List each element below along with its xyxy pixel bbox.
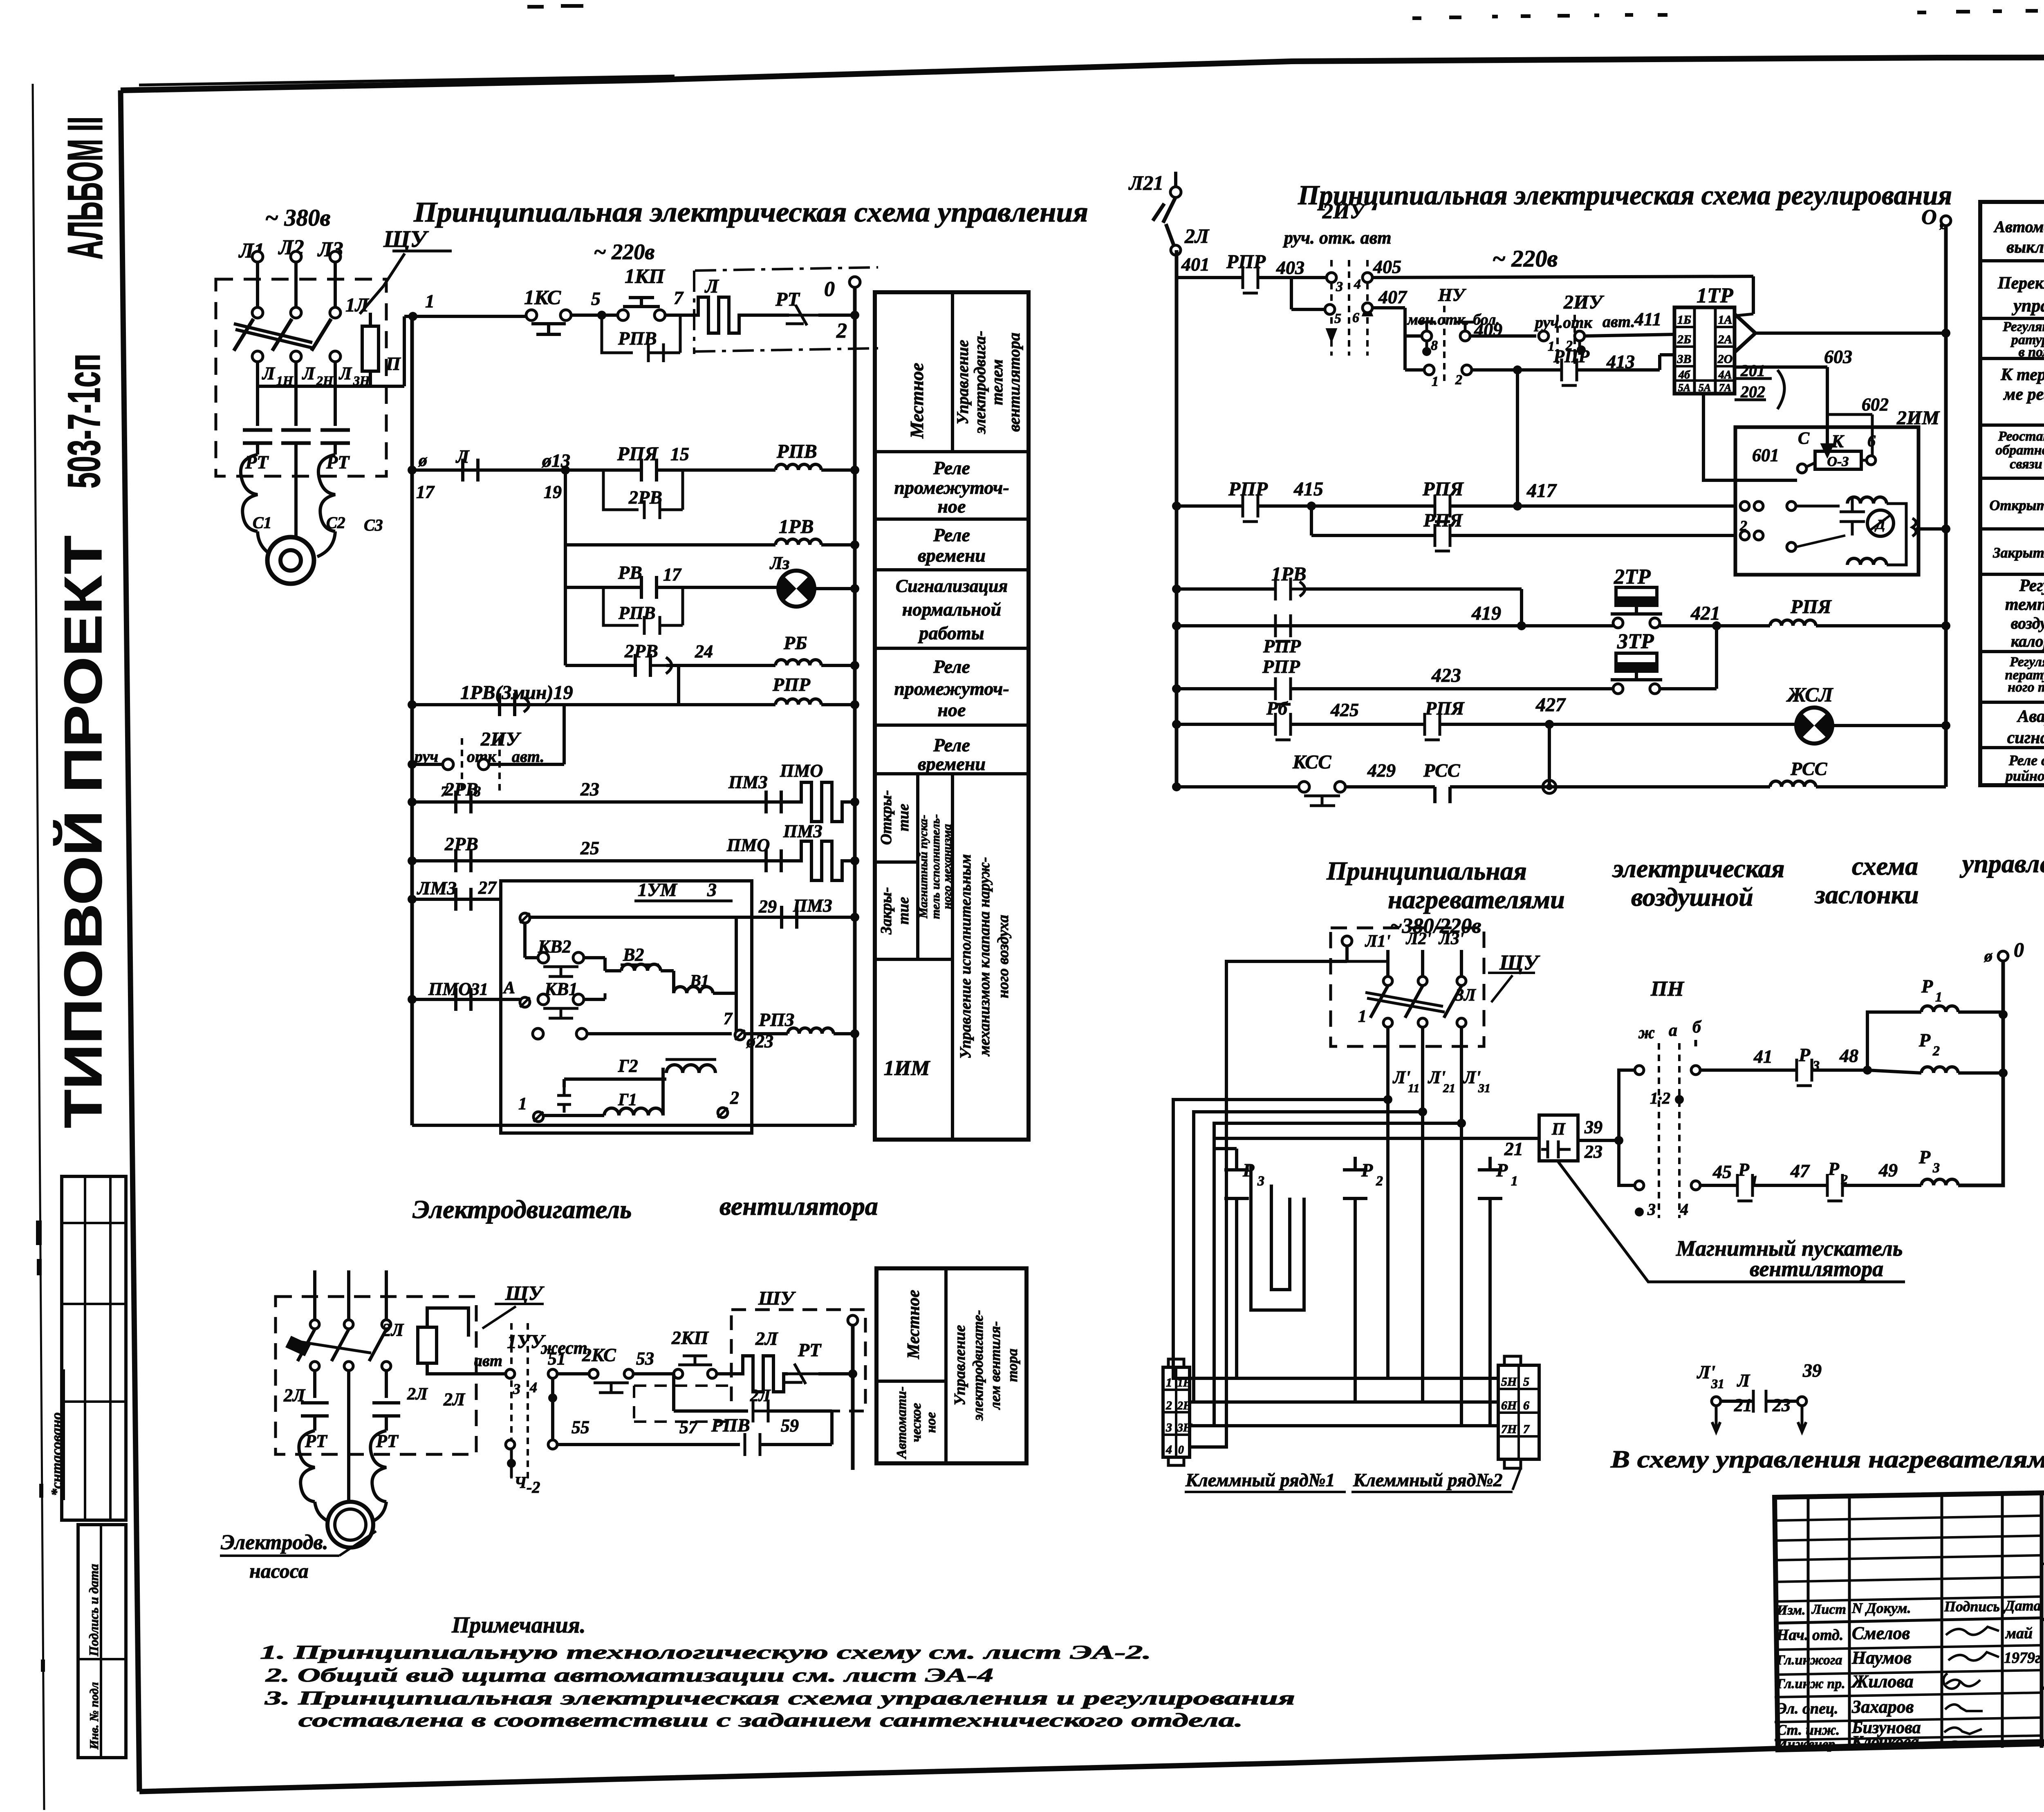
svg-text:Управление исполнительным: Управление исполнительным — [957, 854, 974, 1059]
svg-text:электрическая: электрическая — [1612, 854, 1785, 883]
rung РПР 423 — [1172, 684, 1181, 693]
svg-text:Г2: Г2 — [618, 1056, 638, 1076]
svg-text:57: 57 — [679, 1417, 698, 1437]
svg-text:ЖСЛ: ЖСЛ — [1786, 683, 1833, 706]
svg-text:К: К — [1831, 431, 1845, 451]
svg-text:Г1: Г1 — [618, 1091, 637, 1109]
svg-text:С3: С3 — [364, 516, 383, 534]
svg-text:2ИУ: 2ИУ — [1322, 200, 1366, 223]
svg-text:3: 3 — [707, 879, 717, 900]
svg-text:49: 49 — [1878, 1160, 1898, 1180]
svg-text:ПМО: ПМО — [780, 761, 823, 781]
svg-text:управления: управления — [2011, 296, 2044, 316]
margin stamp grid upper — [62, 1176, 126, 1520]
margin stamp grid lower — [78, 1525, 126, 1758]
svg-text:тие: тие — [895, 897, 912, 925]
svg-text:3: 3 — [513, 1381, 520, 1397]
svg-text:заслонки: заслонки — [1814, 880, 1919, 909]
table A frame — [875, 292, 1029, 1140]
svg-text:7: 7 — [724, 1010, 733, 1028]
title block verticals left part — [1807, 1497, 1810, 1749]
svg-text:Аварийная: Аварийная — [2016, 707, 2044, 726]
svg-text:423: 423 — [1431, 665, 1461, 686]
svg-text:7А: 7А — [1719, 382, 1731, 394]
svg-text:промежуточ-: промежуточ- — [894, 678, 1009, 699]
breaker blades — [1370, 986, 1388, 1018]
svg-text:1. Принципиальную технологич: 1. Принципиальную технологическую схему … — [260, 1642, 1151, 1663]
svg-text:Ст. инж.: Ст. инж. — [1777, 1722, 1840, 1738]
label Ч-2 — [507, 1459, 516, 1468]
svg-text:~ 380в: ~ 380в — [265, 204, 330, 231]
svg-text:управления: управления — [1959, 849, 2044, 878]
svg-text:23: 23 — [1584, 1142, 1602, 1162]
svg-text:23: 23 — [580, 779, 599, 800]
svg-text:39: 39 — [1584, 1117, 1602, 1137]
svg-text:электродвига-: электродвига- — [970, 331, 989, 435]
rung 2РВ 25 ПМО ПМЗ — [408, 856, 417, 865]
svg-text:ного теплоноси-: ного теплоноси- — [2008, 680, 2044, 695]
svg-text:2О: 2О — [1717, 352, 1733, 366]
svg-text:О: О — [1921, 206, 1937, 229]
svg-text:Эл. опец.: Эл. опец. — [1777, 1700, 1838, 1717]
svg-text:603: 603 — [1824, 346, 1852, 367]
phase terminal Л2 — [291, 251, 301, 262]
svg-text:Л21: Л21 — [1128, 171, 1163, 194]
svg-text:1РВ(3мин)19: 1РВ(3мин)19 — [460, 682, 573, 703]
svg-text:связи: связи — [2010, 457, 2042, 472]
svg-text:Подлись и дата: Подлись и дата — [86, 1564, 101, 1657]
svg-text:работы: работы — [917, 623, 984, 643]
svg-text:РПЯ: РПЯ — [1422, 478, 1464, 500]
svg-text:ПН: ПН — [1650, 977, 1684, 1001]
svg-text:Реле: Реле — [933, 457, 970, 478]
node 0 — [849, 277, 860, 287]
switch 2ИУ(5-6) 407 — [1177, 277, 1291, 278]
svg-text:РПВ: РПВ — [618, 603, 655, 623]
svg-text:~380/220в: ~380/220в — [1390, 914, 1481, 938]
svg-text:1ТР: 1ТР — [1697, 284, 1734, 307]
leader Магнитный пускатель — [1558, 1161, 1905, 1282]
right side pigtail of 2ИМ — [1912, 518, 1916, 536]
svg-text:Подпись: Подпись — [1944, 1598, 2000, 1615]
svg-text:Р: Р — [1798, 1044, 1811, 1065]
svg-text:55: 55 — [572, 1417, 589, 1437]
svg-text:51: 51 — [548, 1348, 566, 1369]
svg-text:ЩУ: ЩУ — [505, 1281, 545, 1304]
svg-text:РПЯ: РПЯ — [1425, 698, 1465, 719]
wire Л31 loop — [1190, 1123, 1461, 1426]
svg-text:-2: -2 — [527, 1478, 540, 1496]
svg-text:тие: тие — [895, 804, 912, 831]
line under — [2042, 1611, 2044, 1619]
svg-text:РСС: РСС — [1423, 760, 1461, 781]
svg-text:407: 407 — [1378, 287, 1407, 307]
scan marks left edge — [36, 1221, 42, 1245]
svg-text:39: 39 — [1802, 1360, 1822, 1381]
rung 2РВ 23 ПМЗ ПМО — [408, 797, 417, 806]
svg-text:31: 31 — [471, 980, 488, 999]
svg-text:Магнитный пуска-: Магнитный пуска- — [917, 815, 930, 918]
header row Изм Лист Ндокум Подпись Дата — [1775, 1618, 2042, 1623]
svg-text:2Л: 2Л — [407, 1385, 428, 1404]
svg-text:ШУ: ШУ — [758, 1288, 796, 1309]
svg-text:4А: 4А — [1718, 369, 1732, 381]
svg-text:ПМО: ПМО — [726, 835, 770, 855]
node 0 C — [1998, 951, 2008, 961]
svg-text:19: 19 — [544, 482, 562, 502]
svg-text:7Н: 7Н — [1501, 1422, 1517, 1436]
svg-text:29: 29 — [758, 896, 777, 916]
wires down from switch — [1386, 1087, 1390, 1378]
svg-text:24: 24 — [695, 641, 713, 661]
svg-text:417: 417 — [1526, 480, 1557, 502]
svg-text:электродвигате-: электродвигате- — [970, 1310, 986, 1421]
svg-text:Местное: Местное — [904, 1290, 923, 1359]
svg-text:11: 11 — [1408, 1082, 1419, 1095]
svg-text:405: 405 — [1373, 256, 1401, 277]
svg-text:РПР: РПР — [1228, 478, 1268, 500]
contactor П box — [1539, 1115, 1578, 1161]
svg-text:ПМО: ПМО — [428, 979, 471, 999]
frame top border — [121, 57, 2044, 90]
svg-text:Реле: Реле — [933, 524, 970, 545]
svg-text:1: 1 — [518, 1095, 527, 1113]
svg-text:Гл.инж пр.: Гл.инж пр. — [1776, 1676, 1845, 1691]
svg-text:602: 602 — [1862, 394, 1889, 414]
svg-text:6: 6 — [1352, 310, 1359, 325]
svg-text:1ИМ: 1ИМ — [884, 1057, 930, 1080]
svg-text:401: 401 — [1181, 254, 1210, 275]
svg-text:2РВ: 2РВ — [444, 833, 478, 854]
rung2 node 17 — [408, 466, 417, 475]
fuse П — [362, 326, 379, 371]
table A top split — [951, 292, 954, 452]
svg-text:Лз: Лз — [769, 553, 789, 573]
wire O phase left — [1190, 961, 1347, 1447]
svg-text:Л1': Л1' — [1365, 932, 1390, 951]
svg-text:3Н: 3Н — [1177, 1422, 1192, 1434]
svg-text:Рб: Рб — [1266, 698, 1288, 719]
svg-text:вентилятора: вентилятора — [719, 1192, 878, 1221]
svg-text:Закрытие: Закрытие — [1992, 544, 2044, 561]
svg-text:6: 6 — [1523, 1399, 1529, 1412]
leader to motor — [339, 1531, 376, 1556]
row 55-57-59 — [506, 1440, 515, 1449]
svg-text:НУ: НУ — [1438, 285, 1466, 305]
wire down to 1ТР — [1752, 276, 1755, 314]
svg-text:ТИПОВОЙ ПРОЕКТ: ТИПОВОЙ ПРОЕКТ — [53, 535, 113, 1128]
svg-text:руч. отк. авт: руч. отк. авт — [1282, 228, 1391, 248]
svg-text:Реостат: Реостат — [1998, 429, 2044, 444]
contactor 1Л blades — [234, 319, 253, 351]
svg-text:Л: Л — [1737, 1371, 1750, 1391]
svg-text:5: 5 — [591, 288, 601, 309]
svg-text:Инв. № подл: Инв. № подл — [87, 1682, 101, 1750]
svg-text:Примечания.: Примечания. — [451, 1613, 586, 1638]
svg-text:1·2: 1·2 — [1650, 1089, 1670, 1107]
wires below contactor — [256, 362, 259, 386]
svg-text:Ч: Ч — [514, 1473, 527, 1492]
svg-text:Р: Р — [1921, 976, 1933, 997]
svg-text:Смелов: Смелов — [1852, 1623, 1910, 1643]
coils inside 2ИМ — [1847, 497, 1887, 504]
isolating contacts — [256, 386, 259, 426]
node 1 — [408, 312, 417, 321]
svg-text:ПМЗ: ПМЗ — [783, 821, 823, 841]
internal contacts 2ИМ — [1740, 502, 1749, 511]
svg-text:1КС: 1КС — [524, 286, 561, 309]
svg-text:температуры: температуры — [2005, 595, 2044, 614]
svg-text:Жилова: Жилова — [1851, 1671, 1914, 1691]
left bus A — [410, 316, 414, 1125]
svg-text:Л: Л — [704, 275, 719, 297]
svg-text:7: 7 — [674, 287, 684, 308]
svg-text:Реле: Реле — [933, 735, 970, 755]
svg-text:С: С — [1798, 429, 1810, 448]
svg-text:45: 45 — [1712, 1161, 1732, 1182]
svg-text:21: 21 — [1443, 1082, 1455, 1095]
svg-text:О-З: О-З — [1827, 454, 1849, 469]
bottom return wire — [412, 1124, 855, 1127]
svg-text:1: 1 — [1166, 1376, 1172, 1389]
svg-text:1: 1 — [1432, 374, 1439, 389]
svg-text:схема: схема — [1852, 851, 1918, 880]
svg-text:27: 27 — [478, 878, 497, 898]
svg-text:2Л: 2Л — [755, 1328, 778, 1349]
svg-text:ного механизма: ного механизма — [940, 824, 954, 909]
motor насоса — [315, 1455, 386, 1521]
svg-text:21: 21 — [1734, 1395, 1752, 1415]
svg-text:Клочкова: Клочкова — [1851, 1732, 1919, 1751]
wire 601 from 1ТР bottom — [1703, 394, 1797, 480]
svg-text:4: 4 — [1165, 1443, 1172, 1456]
svg-text:ЛМЗ: ЛМЗ — [417, 878, 457, 898]
svg-text:насоса: насоса — [249, 1559, 309, 1582]
frame top border second line — [139, 76, 675, 85]
svg-text:5: 5 — [1523, 1375, 1529, 1389]
svg-text:411: 411 — [1634, 309, 1661, 329]
svg-text:Принципиальная: Принципиальная — [1326, 856, 1527, 885]
svg-text:обратной: обратной — [1995, 443, 2044, 458]
svg-text:5А: 5А — [1699, 382, 1711, 394]
ПН contacts row1 — [1635, 1066, 1644, 1075]
svg-text:РПР: РПР — [1553, 346, 1590, 366]
rung КСС 429 РСС coil — [1172, 782, 1181, 791]
rung 1РВ — [1172, 585, 1181, 594]
svg-text:промежуточ-: промежуточ- — [894, 477, 1009, 498]
svg-text:48: 48 — [1839, 1045, 1858, 1066]
svg-text:425: 425 — [1330, 699, 1359, 720]
svg-text:202: 202 — [1740, 383, 1765, 401]
svg-text:нормальной: нормальной — [902, 599, 1002, 620]
scan dashes top — [527, 5, 544, 9]
1ТР right bracket to bus — [1735, 314, 1755, 352]
svg-text:К термосисте-: К термосисте- — [2000, 365, 2044, 384]
wire rung1 — [413, 315, 527, 318]
svg-text:АЛЬБОМ II: АЛЬБОМ II — [57, 116, 113, 260]
svg-text:РПР: РПР — [772, 674, 811, 695]
svg-text:Дата: Дата — [2004, 1597, 2041, 1614]
svg-text:1: 1 — [1358, 1007, 1367, 1026]
svg-text:0: 0 — [824, 278, 835, 301]
svg-text:201: 201 — [1740, 361, 1765, 380]
svg-text:17: 17 — [416, 482, 435, 502]
svg-text:Наумов: Наумов — [1851, 1648, 1912, 1668]
motor Д inside — [1867, 510, 1894, 536]
svg-text:Управление: Управление — [953, 340, 972, 424]
svg-text:59: 59 — [781, 1416, 799, 1436]
rung coil 1РВ — [565, 543, 775, 547]
rung 2РВ 24 РБ — [565, 664, 635, 667]
aux contact pair — [533, 1028, 543, 1039]
svg-text:5: 5 — [1334, 311, 1341, 326]
svg-text:Л: Л — [302, 363, 316, 383]
svg-text:3Л: 3Л — [1455, 986, 1476, 1005]
svg-text:2. Общий вид щита автоматиз: 2. Общий вид щита автоматизации см. лист… — [265, 1664, 993, 1686]
svg-text:2Л: 2Л — [1184, 224, 1210, 247]
svg-text:2: 2 — [1739, 517, 1747, 534]
svg-text:2: 2 — [1165, 1399, 1172, 1412]
svg-text:а: а — [1669, 1021, 1677, 1040]
table B row lines — [1980, 259, 2044, 262]
wires to motor — [258, 531, 335, 557]
svg-text:23: 23 — [1772, 1395, 1791, 1415]
svg-text:2: 2 — [730, 1088, 739, 1108]
rung РПЯ lower — [1310, 506, 1313, 535]
bus row1 to block2 — [1190, 1377, 1498, 1380]
svg-text:25: 25 — [580, 838, 599, 858]
svg-text:2: 2 — [1455, 372, 1462, 387]
svg-text:времени: времени — [918, 545, 986, 566]
svg-text:4: 4 — [529, 1379, 537, 1395]
wire Л11 loop — [1173, 1100, 1388, 1378]
svg-text:ø: ø — [1984, 947, 1993, 965]
divider above принципиальная — [2042, 1685, 2044, 1688]
svg-text:421: 421 — [1690, 603, 1720, 624]
svg-text:2Л: 2Л — [382, 1320, 404, 1340]
svg-text:3: 3 — [1165, 1421, 1172, 1434]
svg-text:Электродвигатель: Электродвигатель — [412, 1195, 632, 1224]
svg-text:1: 1 — [1935, 990, 1942, 1005]
svg-text:руч.отк: руч.отк — [1534, 313, 1593, 331]
svg-text:2РВ: 2РВ — [444, 779, 478, 800]
svg-text:В2: В2 — [623, 945, 644, 965]
svg-text:N Докум.: N Докум. — [1851, 1600, 1911, 1616]
svg-text:времени: времени — [918, 753, 986, 774]
svg-text:503-7-1сп: 503-7-1сп — [58, 354, 110, 488]
bypass 2Л aux contact — [672, 1374, 675, 1411]
contacts 1/2 lower НУ — [1424, 365, 1434, 375]
svg-text:рийного сигнала: рийного сигнала — [2004, 768, 2044, 784]
svg-text:Принципиальная электрическая: Принципиальная электрическая схема управ… — [413, 197, 1088, 228]
wire to node 1 — [258, 385, 370, 388]
svg-text:Р: Р — [1828, 1159, 1840, 1179]
svg-text:2РВ: 2РВ — [628, 487, 662, 508]
signature rows — [1775, 1645, 2042, 1650]
svg-text:май: май — [2005, 1625, 2033, 1642]
dashed box ЩУ2 — [1331, 928, 1484, 1046]
svg-text:Лист: Лист — [1811, 1602, 1846, 1617]
svg-text:Р: Р — [1918, 1030, 1931, 1050]
svg-text:5А: 5А — [1678, 382, 1690, 394]
svg-text:РПР: РПР — [1262, 656, 1300, 677]
svg-text:Клеммный ряд№1: Клеммный ряд№1 — [1185, 1469, 1335, 1490]
svg-text:выключатель: выключатель — [2006, 238, 2044, 257]
svg-text:3В: 3В — [1676, 352, 1691, 366]
bypass contact РПВ — [602, 315, 680, 362]
svg-text:4: 4 — [1354, 277, 1361, 292]
svg-text:Нач. отд.: Нач. отд. — [1776, 1626, 1843, 1644]
svg-text:1УМ: 1УМ — [638, 879, 678, 900]
ПН contacts row2 — [1635, 1181, 1644, 1190]
svg-text:А: А — [502, 979, 515, 997]
svg-text:вентилятора: вентилятора — [1750, 1257, 1883, 1281]
svg-text:нагревателями: нагревателями — [1388, 885, 1565, 914]
svg-text:2: 2 — [836, 319, 847, 343]
svg-text:ме регулятора: ме регулятора — [2003, 385, 2044, 404]
inner wire loops — [1251, 1164, 1304, 1310]
fuse D — [418, 1327, 437, 1363]
svg-text:С1: С1 — [253, 513, 272, 532]
svg-text:РСС: РСС — [1790, 758, 1828, 779]
svg-text:2КП: 2КП — [671, 1327, 709, 1348]
svg-text:2ТР: 2ТР — [1614, 565, 1651, 589]
svg-text:лем вентиля-: лем вентиля- — [987, 1321, 1003, 1410]
svg-text:ПМЗ: ПМЗ — [793, 896, 832, 916]
svg-text:*снтасовано: *снтасовано — [48, 1412, 65, 1496]
svg-text:РПР: РПР — [1263, 636, 1301, 656]
junction 413 — [1513, 365, 1522, 374]
node 19 — [561, 466, 570, 475]
svg-text:Л: Л — [338, 363, 352, 383]
svg-text:РПЯ: РПЯ — [617, 443, 659, 465]
table C frame — [876, 1268, 1026, 1463]
svg-text:Р: Р — [1918, 1147, 1931, 1167]
svg-text:Управление: Управление — [951, 1325, 968, 1405]
svg-text:~ 220в: ~ 220в — [594, 240, 654, 264]
svg-text:Местное: Местное — [906, 363, 927, 439]
right bus A — [853, 286, 857, 1125]
svg-text:Захаров: Захаров — [1851, 1697, 1914, 1717]
svg-text:Автомати-: Автомати- — [894, 1386, 909, 1460]
middle phase wire — [294, 455, 298, 531]
svg-text:17: 17 — [663, 564, 682, 585]
svg-text:Откры-: Откры- — [878, 790, 895, 845]
bus row3 to block2 — [1190, 1424, 1498, 1427]
node 5 — [597, 311, 606, 320]
svg-text:Реле: Реле — [933, 656, 970, 677]
svg-text:2ИУ: 2ИУ — [1563, 291, 1604, 313]
svg-text:~ 220в: ~ 220в — [1492, 245, 1558, 272]
svg-text:ное: ное — [923, 1412, 939, 1433]
signatures scribbles — [1946, 1627, 1999, 1635]
svg-text:Клеммный ряд№2: Клеммный ряд№2 — [1353, 1469, 1503, 1490]
svg-text:механизмом клапана наруж-: механизмом клапана наруж- — [976, 857, 993, 1057]
svg-text:РПР: РПР — [1226, 251, 1266, 273]
svg-text:ЩУ: ЩУ — [383, 226, 429, 252]
svg-text:429: 429 — [1367, 760, 1396, 781]
svg-text:РПВ: РПВ — [776, 441, 817, 462]
svg-text:ного воздуха: ного воздуха — [995, 915, 1012, 998]
svg-text:601: 601 — [1752, 445, 1779, 465]
svg-text:телем: телем — [988, 359, 1006, 405]
svg-text:ø: ø — [418, 451, 428, 470]
svg-text:В схему управления нагревате: В схему управления нагревателями воздушн… — [1610, 1446, 2044, 1473]
wire П to ПН — [1578, 1149, 1602, 1150]
svg-text:Р: Р — [1738, 1160, 1750, 1180]
svg-text:РПЯ: РПЯ — [1790, 596, 1832, 618]
rung 2ИУ руч отк авт — [408, 760, 417, 769]
